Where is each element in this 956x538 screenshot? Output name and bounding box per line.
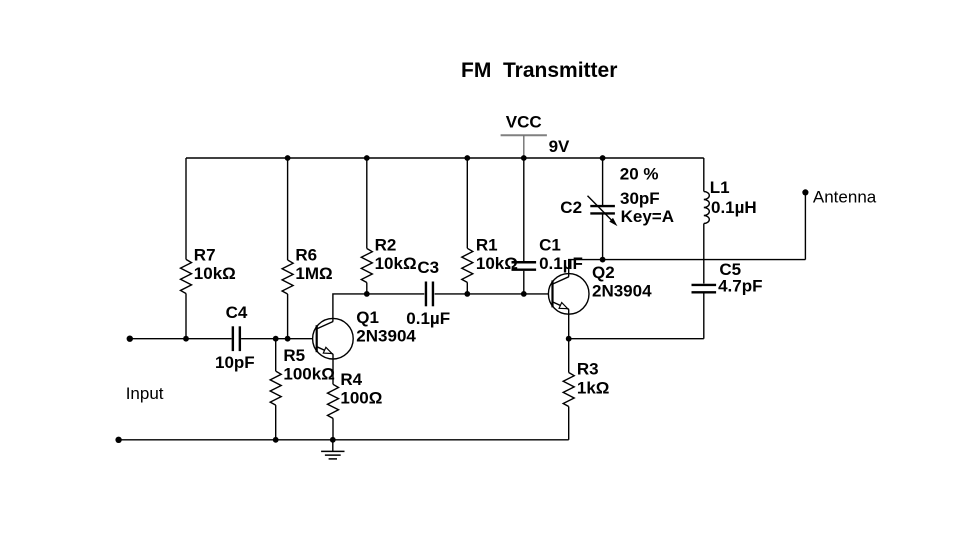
transistor Q2 [548, 274, 589, 315]
inductor L1 [703, 158, 705, 192]
svg-text:30pF: 30pF [620, 189, 660, 208]
resistor R2 [366, 158, 368, 249]
junction (287.6,158) [285, 155, 291, 161]
svg-text:R1: R1 [476, 236, 498, 255]
wire top rail [186, 157, 704, 159]
capacitor C4 [232, 326, 234, 351]
junction (332.8,439.8) [330, 437, 336, 443]
node Antenna [802, 189, 808, 195]
svg-text:2N3904: 2N3904 [592, 282, 652, 301]
svg-text:R6: R6 [295, 245, 317, 264]
svg-text:Q1: Q1 [356, 308, 379, 327]
svg-text:Q2: Q2 [592, 263, 615, 282]
power VCC [501, 134, 547, 136]
junction (366.8,293.9) [364, 291, 370, 297]
svg-text:L1: L1 [710, 178, 730, 197]
wire bottom rail [119, 439, 569, 441]
wire Q2 emitter row [569, 309, 704, 338]
svg-text:R4: R4 [340, 370, 362, 389]
junction (275.7,338.7) [273, 336, 279, 342]
resistor R6 [287, 158, 289, 260]
wire Q1 collector row [333, 294, 424, 322]
capacitor C1 [523, 158, 525, 261]
wire Q2 collector / antenna row [569, 260, 806, 277]
svg-text:1MΩ: 1MΩ [295, 264, 332, 283]
svg-text:C1: C1 [539, 236, 561, 255]
svg-text:10kΩ: 10kΩ [375, 254, 417, 273]
svg-text:100Ω: 100Ω [340, 388, 382, 407]
transistor Q1 [313, 318, 354, 359]
capacitor C3 [425, 282, 427, 307]
svg-text:C4: C4 [226, 303, 248, 322]
svg-text:FM Transmitter: FM Transmitter [461, 59, 617, 82]
svg-text:10pF: 10pF [215, 353, 255, 372]
svg-text:Input: Input [126, 384, 164, 403]
junction (186,338.7) [183, 336, 189, 342]
node Input port (top) [127, 336, 133, 342]
node Input port (bottom) [115, 437, 121, 443]
svg-text:R2: R2 [375, 236, 397, 255]
junction (602.6,158) [600, 155, 606, 161]
junction (467.3,158) [464, 155, 470, 161]
junction (568.7,338.7) [566, 336, 572, 342]
svg-text:R7: R7 [194, 245, 216, 264]
ground [332, 440, 334, 452]
svg-text:R5: R5 [283, 346, 305, 365]
svg-text:1kΩ: 1kΩ [577, 379, 610, 398]
svg-text:0.1µH: 0.1µH [711, 198, 757, 217]
resistor R1 [466, 158, 468, 248]
resistor R7 [185, 158, 187, 259]
junction (366.8,158) [364, 155, 370, 161]
junction (287.6,338.7) [285, 336, 291, 342]
svg-text:0.1µF: 0.1µF [539, 254, 583, 273]
svg-text:9V: 9V [549, 137, 570, 156]
wire antenna drop [804, 192, 806, 259]
svg-text:VCC: VCC [506, 112, 542, 131]
svg-text:4.7pF: 4.7pF [718, 277, 762, 296]
svg-text:0.1µF: 0.1µF [406, 309, 450, 328]
svg-text:C2: C2 [560, 198, 582, 217]
junction (275.7,439.8) [273, 437, 279, 443]
junction (467.3,293.9) [464, 291, 470, 297]
resistor R3 [568, 339, 570, 373]
resistor R4 [328, 384, 339, 418]
capacitor C2 (variable) [602, 158, 604, 205]
svg-text:Antenna: Antenna [813, 188, 877, 207]
svg-text:20 %: 20 % [620, 165, 659, 184]
svg-text:R3: R3 [577, 360, 599, 379]
resistor R5 [275, 339, 277, 371]
svg-text:C3: C3 [417, 258, 439, 277]
junction (523.8,293.9) [521, 291, 527, 297]
svg-text:10kΩ: 10kΩ [194, 264, 236, 283]
junction (602.6,259.6) [600, 257, 606, 263]
capacitor C5 [692, 284, 717, 286]
wire input row [130, 338, 232, 340]
svg-text:2N3904: 2N3904 [356, 326, 416, 345]
svg-text:Key=A: Key=A [621, 207, 674, 226]
svg-text:100kΩ: 100kΩ [283, 364, 334, 383]
junction (523.8,158) [521, 155, 527, 161]
